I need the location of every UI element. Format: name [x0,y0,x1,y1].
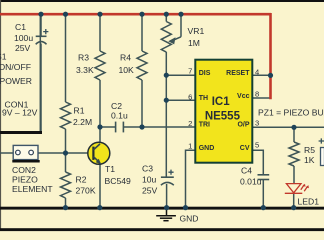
svg-text:C4: C4 [241,165,252,175]
svg-text:R4: R4 [120,53,131,63]
svg-text:GND: GND [199,145,215,152]
svg-text:TRI: TRI [199,122,210,129]
svg-text:R2: R2 [76,174,87,184]
svg-text:9V – 12V: 9V – 12V [2,107,38,117]
svg-text:5: 5 [255,141,259,150]
svg-text:C3: C3 [142,163,153,173]
svg-text:R5: R5 [304,145,315,155]
svg-text:R1: R1 [74,106,85,116]
svg-text:7: 7 [188,67,192,76]
svg-text:3: 3 [255,118,259,127]
svg-text:3.3K: 3.3K [76,65,94,75]
svg-text:Vcc: Vcc [237,93,250,100]
svg-text:PZ1 = PIEZO BUZZER: PZ1 = PIEZO BUZZER [258,108,324,118]
svg-text:R3: R3 [78,53,89,63]
svg-text:270K: 270K [76,186,96,196]
svg-text:0.1u: 0.1u [111,110,128,120]
svg-text:POWER: POWER [0,76,32,86]
svg-text:VR1: VR1 [188,26,205,36]
svg-text:GND: GND [180,214,199,224]
svg-text:RESET: RESET [226,70,250,77]
svg-text:BC549: BC549 [105,176,131,186]
svg-text:8: 8 [255,90,259,99]
svg-text:25V: 25V [142,186,158,196]
svg-text:CV: CV [240,145,250,152]
svg-text:C1: C1 [15,22,26,32]
svg-text:IC1: IC1 [212,96,231,108]
svg-text:2.2M: 2.2M [73,117,92,127]
svg-text:6: 6 [188,92,192,101]
svg-text:100u: 100u [14,33,33,43]
svg-text:O/P: O/P [237,122,249,129]
svg-text:DIS: DIS [199,70,211,77]
svg-text:2: 2 [188,119,192,128]
svg-text:1K: 1K [304,155,315,165]
svg-text:NE555: NE555 [205,111,241,123]
svg-text:TH: TH [199,95,208,102]
svg-text:10u: 10u [142,175,157,185]
svg-text:S1: S1 [0,52,7,62]
svg-text:ELEMENT: ELEMENT [12,184,53,194]
svg-text:T1: T1 [105,164,115,174]
svg-text:1: 1 [188,142,192,151]
svg-text:PIEZO: PIEZO [12,174,38,184]
svg-text:25V: 25V [15,43,31,53]
svg-text:ON/OFF: ON/OFF [0,62,31,72]
svg-text:1M: 1M [188,38,200,48]
svg-text:10K: 10K [119,65,135,75]
svg-text:4: 4 [255,67,259,76]
svg-text:LED1: LED1 [298,196,320,206]
svg-text:0.01u: 0.01u [240,176,262,186]
